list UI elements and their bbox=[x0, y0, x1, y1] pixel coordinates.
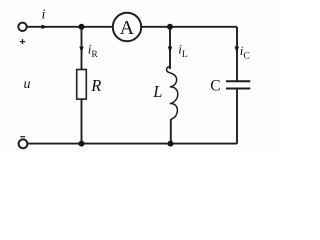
svg-text:L: L bbox=[152, 82, 162, 101]
label + bbox=[20, 39, 25, 44]
svg-text:iR: iR bbox=[88, 41, 99, 60]
wire R branch lower bbox=[81, 99, 83, 144]
current arrow iR head bbox=[79, 47, 83, 54]
current arrow iL head bbox=[168, 47, 172, 54]
svg-text:iC: iC bbox=[240, 43, 250, 62]
wire C branch lower bbox=[236, 89, 238, 144]
capacitor C bottom plate bbox=[226, 88, 250, 90]
svg-text:i: i bbox=[42, 8, 46, 23]
resistor R body bbox=[77, 70, 87, 100]
svg-text:iL: iL bbox=[178, 41, 188, 60]
current arrow i head bbox=[42, 25, 49, 29]
wire L branch lower bbox=[170, 119, 172, 144]
current arrow iC head bbox=[235, 47, 239, 54]
svg-text:A: A bbox=[120, 17, 135, 39]
label − bbox=[20, 136, 25, 138]
ammeter U1 body bbox=[113, 13, 141, 41]
svg-text:R: R bbox=[90, 76, 101, 95]
terminal + (top-left) bbox=[18, 23, 26, 31]
junction node a (top of R branch) bbox=[79, 24, 85, 30]
inductor L body bbox=[167, 67, 178, 120]
junction node b (top of L branch) bbox=[167, 24, 173, 30]
wire L branch upper bbox=[169, 27, 171, 69]
wire R branch upper bbox=[81, 27, 83, 70]
wire top segment: node b to top-right corner bbox=[170, 26, 237, 28]
wire top segment: ammeter to node b bbox=[141, 26, 170, 28]
wire C branch upper bbox=[236, 27, 238, 82]
wire top segment: terminal to ammeter bbox=[27, 26, 113, 28]
svg-text:C: C bbox=[210, 77, 220, 94]
junction node c (bottom of R branch) bbox=[79, 141, 85, 147]
svg-text:u: u bbox=[24, 77, 31, 92]
junction node d (bottom of L branch) bbox=[168, 141, 174, 147]
terminal − (bottom-left) bbox=[19, 139, 28, 148]
capacitor C top plate bbox=[226, 80, 250, 82]
wire bottom segment bbox=[28, 143, 237, 145]
